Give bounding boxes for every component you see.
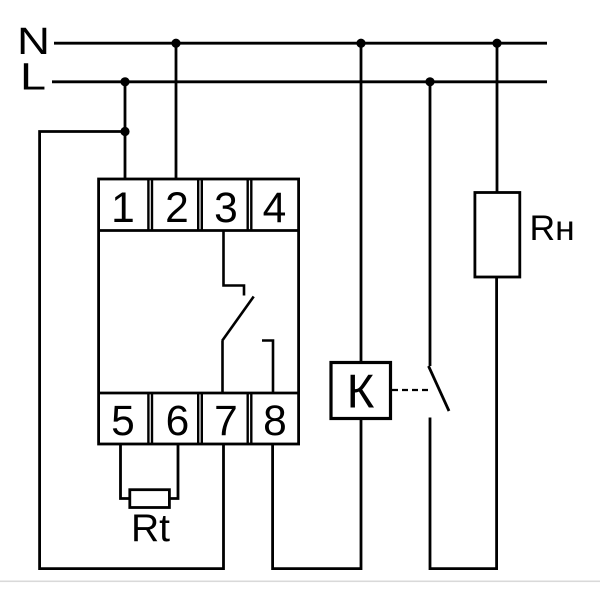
svg-text:5: 5 bbox=[111, 398, 135, 445]
svg-text:2: 2 bbox=[165, 185, 189, 232]
wire left branch from junction down and along bottom to terminal 7 bbox=[40, 132, 224, 569]
wire terminal 5 to sensor Rt bbox=[121, 444, 130, 499]
terminal dividers top row bbox=[148, 179, 251, 231]
internal contact fixed lead from pin 3 bbox=[224, 231, 245, 296]
svg-text:L: L bbox=[20, 57, 46, 99]
svg-text:Rt: Rt bbox=[131, 507, 170, 550]
relay contact blade bbox=[429, 366, 450, 411]
wire L bus bbox=[52, 80, 547, 83]
svg-text:1: 1 bbox=[111, 185, 135, 232]
svg-text:8: 8 bbox=[263, 398, 287, 445]
sensor resistor Rt bbox=[130, 490, 170, 508]
svg-text:4: 4 bbox=[263, 185, 287, 232]
internal contact blade bbox=[222, 297, 254, 342]
relay coil K box bbox=[331, 363, 391, 419]
wire N bus bbox=[54, 42, 547, 45]
junction on L bus at x=125 bbox=[120, 77, 129, 86]
wire terminal 8 along bottom to relay coil K bbox=[273, 419, 361, 569]
junction on terminal-1 drop at x=125 y=131.5 bbox=[120, 127, 129, 136]
device bottom terminal row separator bbox=[99, 392, 299, 395]
wire N bus to load Rн bbox=[496, 43, 499, 192]
svg-text:К: К bbox=[347, 366, 375, 419]
device top terminal row separator bbox=[99, 229, 299, 232]
wire N bus to terminal 2 bbox=[175, 43, 178, 179]
junction on N bus at x=361 bbox=[356, 39, 365, 48]
junction on N bus at x=497 bbox=[492, 39, 501, 48]
mechanical link dashed line bbox=[392, 389, 429, 391]
wire L bus to terminal 1 bbox=[124, 82, 127, 179]
junction on N bus at x=176 bbox=[171, 39, 180, 48]
wire N bus to relay coil K bbox=[360, 43, 363, 362]
load resistor Rн bbox=[475, 193, 520, 278]
device body outline bbox=[99, 179, 299, 444]
internal stub lead to pin 8 bbox=[262, 341, 273, 394]
wire relay contact along bottom to load Rн bbox=[430, 277, 497, 569]
internal contact lead to pin 7 bbox=[221, 341, 224, 393]
svg-text:Rн: Rн bbox=[530, 208, 575, 248]
svg-text:6: 6 bbox=[166, 398, 190, 445]
wire terminal 6 to sensor Rt bbox=[169, 444, 178, 499]
faint page rule at bottom bbox=[0, 581, 600, 583]
svg-text:3: 3 bbox=[214, 185, 238, 232]
junction on L bus at x=430 bbox=[425, 77, 434, 86]
svg-text:7: 7 bbox=[214, 398, 238, 445]
terminal dividers bottom row bbox=[148, 393, 251, 444]
wire L bus to relay contact bbox=[429, 82, 432, 366]
